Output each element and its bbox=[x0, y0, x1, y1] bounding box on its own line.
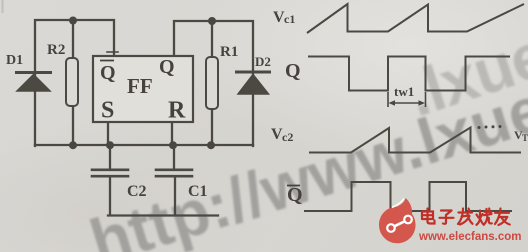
svg-text:tw1: tw1 bbox=[394, 84, 414, 99]
svg-text:Q: Q bbox=[287, 184, 303, 206]
svg-text:c2: c2 bbox=[282, 130, 293, 144]
svg-text:Q: Q bbox=[285, 60, 301, 82]
svg-text:www.elecfans.com: www.elecfans.com bbox=[418, 231, 521, 243]
svg-text:FF: FF bbox=[127, 74, 153, 98]
svg-text:R: R bbox=[168, 98, 186, 124]
svg-text:Q: Q bbox=[100, 62, 116, 84]
svg-text:T: T bbox=[522, 133, 528, 143]
svg-text:R1: R1 bbox=[220, 44, 238, 60]
svg-text:D2: D2 bbox=[255, 54, 271, 69]
svg-text:Q: Q bbox=[159, 56, 175, 78]
svg-text:C2: C2 bbox=[127, 183, 147, 200]
svg-text:R2: R2 bbox=[47, 42, 65, 58]
svg-text:c1: c1 bbox=[284, 12, 295, 26]
svg-text:S: S bbox=[101, 98, 114, 124]
svg-text:D1: D1 bbox=[6, 53, 23, 68]
svg-text:C1: C1 bbox=[188, 183, 208, 200]
